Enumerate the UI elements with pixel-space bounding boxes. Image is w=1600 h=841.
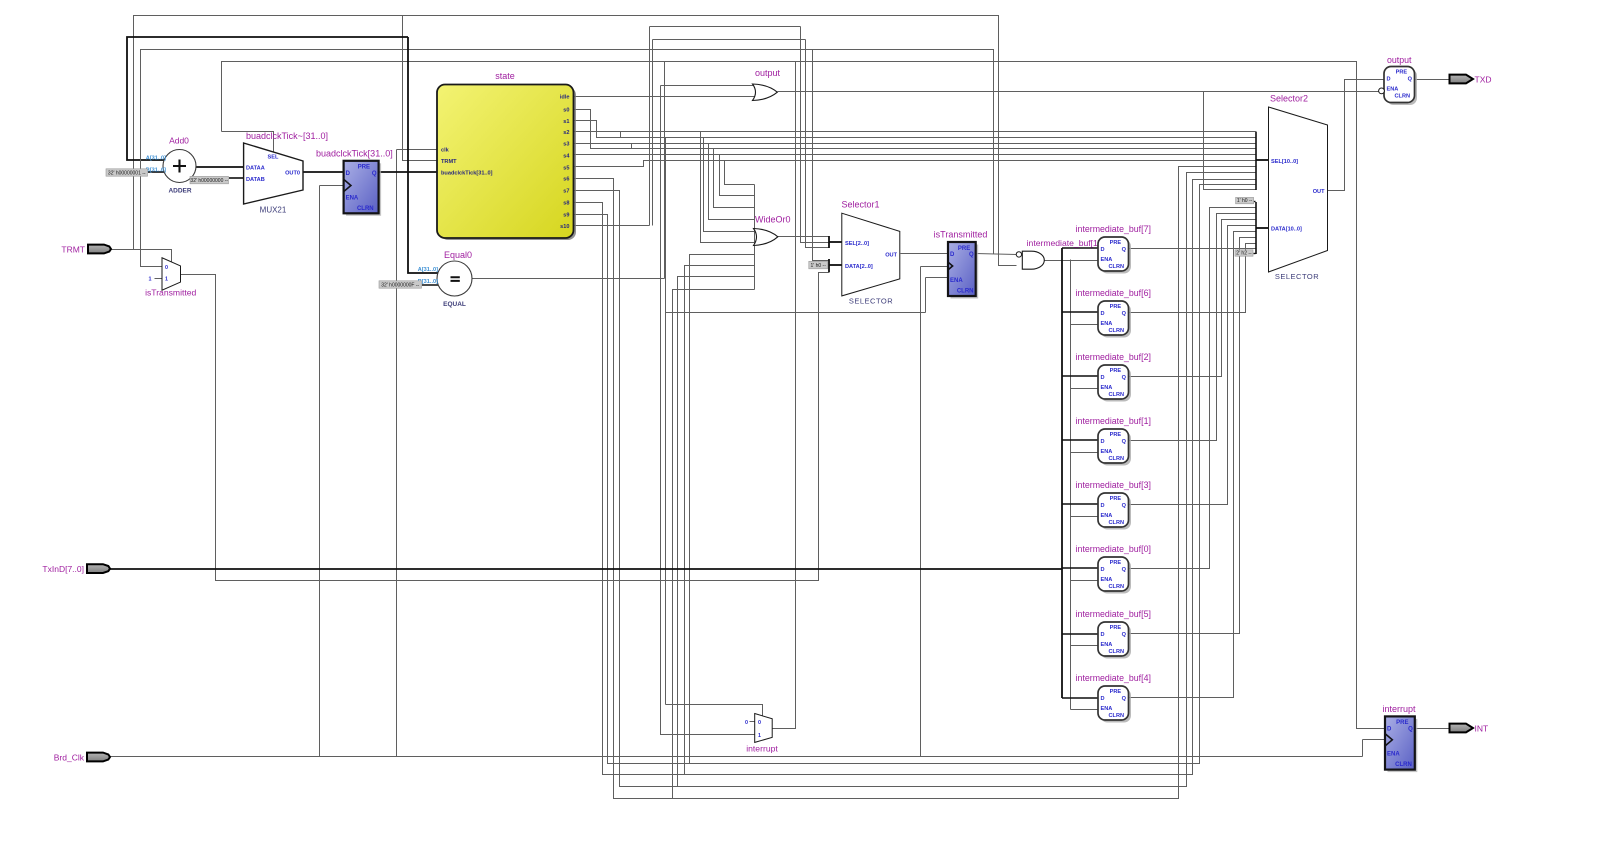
wire clock riser state xyxy=(396,150,398,757)
svg-text:Q: Q xyxy=(969,252,974,258)
flip-flop intermediate_buf[3] xyxy=(1076,480,1151,530)
wire s0 branch to WideOr0 xyxy=(714,149,755,208)
svg-text:DATAB: DATAB xyxy=(246,177,265,183)
svg-text:MUX21: MUX21 xyxy=(260,206,287,215)
input pin TxInD[7..0] xyxy=(42,564,110,574)
wire intermediate_buf[7] Q to Selector2 DATA xyxy=(1129,248,1256,250)
wire MUX21 OUT0 to DFF D xyxy=(303,171,344,173)
wire const 0 stub xyxy=(750,721,755,723)
wire ENA stub intermediate_buf 3 xyxy=(1071,452,1099,454)
wire s3 branch to WideOr0 xyxy=(709,144,755,220)
svg-text:D: D xyxy=(1387,76,1391,82)
svg-text:ENA: ENA xyxy=(1101,385,1113,391)
svg-text:OUT: OUT xyxy=(1313,189,1325,195)
svg-text:D: D xyxy=(1101,439,1105,445)
state machine state xyxy=(437,71,576,240)
wire const 2h2 stub xyxy=(1254,253,1256,255)
wire intermediate_buf[3] Q to Selector2 DATA xyxy=(1129,226,1256,505)
wire branch to Selector2 SEL xyxy=(1204,92,1257,190)
wire intermediate_buf[0] Q to Selector2 DATA xyxy=(1129,208,1256,569)
wire s10 to riser xyxy=(574,225,650,227)
flip-flop buadclckTick[31..0] xyxy=(316,148,393,216)
wire D stub intermediate_buf 0 xyxy=(1062,247,1098,249)
comparator Equal0 xyxy=(418,250,472,308)
svg-text:ENA: ENA xyxy=(1101,642,1113,648)
wire s7 long detour to Selector2 SEL xyxy=(574,173,1257,787)
svg-text:CLRN: CLRN xyxy=(1109,392,1125,398)
svg-text:32' h00000000 --: 32' h00000000 -- xyxy=(190,178,228,184)
wire D stub intermediate_buf 3 xyxy=(1062,439,1098,441)
svg-text:D: D xyxy=(1101,311,1105,317)
svg-text:CLRN: CLRN xyxy=(1109,456,1125,462)
wire Add0 sum to MUX21 DATAA xyxy=(196,166,244,168)
svg-text:SEL: SEL xyxy=(268,155,279,161)
svg-text:buadclckTick[31..0]: buadclckTick[31..0] xyxy=(441,171,493,177)
svg-text:1: 1 xyxy=(758,733,761,739)
svg-text:s5: s5 xyxy=(563,165,569,171)
wire intermediate_buf[6] Q to Selector2 DATA xyxy=(1129,244,1256,313)
wire clock riser isTransmitted xyxy=(920,267,922,757)
svg-text:PRE: PRE xyxy=(1110,689,1122,695)
svg-text:Q: Q xyxy=(372,171,377,177)
wire s5 to Selector2 SEL xyxy=(574,161,1257,167)
svg-text:PRE: PRE xyxy=(358,165,370,171)
wire WideOr0 input bar xyxy=(754,185,756,290)
svg-text:s10: s10 xyxy=(560,224,569,230)
constant 1h0 selector2 xyxy=(1236,197,1254,204)
svg-text:EQUAL: EQUAL xyxy=(443,301,466,308)
svg-text:s8: s8 xyxy=(563,200,569,206)
svg-text:B[31..0]: B[31..0] xyxy=(146,168,166,174)
wire intermediate_buf[2] Q to Selector2 DATA xyxy=(1129,220,1256,377)
svg-text:Q: Q xyxy=(1122,696,1127,702)
wire D stub intermediate_buf 6 xyxy=(1062,633,1098,635)
svg-text:0: 0 xyxy=(758,720,761,726)
wire output Q to TXD xyxy=(1415,79,1450,81)
wire isTransmitted mux output to Selector1 DATA xyxy=(181,273,830,581)
svg-text:CLRN: CLRN xyxy=(1395,94,1411,100)
svg-text:D: D xyxy=(346,171,351,177)
wire s7 branch to WideOr0 xyxy=(678,277,755,787)
svg-text:Q: Q xyxy=(1122,439,1127,445)
svg-text:PRE: PRE xyxy=(1396,720,1408,726)
svg-text:TRMT: TRMT xyxy=(61,245,85,255)
svg-text:CLRN: CLRN xyxy=(1109,649,1125,655)
svg-text:buadclckTick~[31..0]: buadclckTick~[31..0] xyxy=(246,131,328,141)
wire s2 branch to WideOr0 xyxy=(701,132,755,243)
wire clk stub state xyxy=(397,149,438,151)
svg-text:ENA: ENA xyxy=(1101,321,1113,327)
wire Selector2 DATA bar xyxy=(1255,202,1257,254)
svg-text:intermediate_buf[2]: intermediate_buf[2] xyxy=(1076,352,1151,362)
svg-text:DATA[10..0]: DATA[10..0] xyxy=(1271,227,1302,233)
flip-flop intermediate_buf[1] xyxy=(1076,416,1151,466)
svg-text:Q: Q xyxy=(1122,375,1127,381)
svg-text:SEL[10..0]: SEL[10..0] xyxy=(1271,159,1298,165)
wire D stub intermediate_buf 7 xyxy=(1062,697,1098,699)
wire ENA stub intermediate_buf 6 xyxy=(1071,645,1099,647)
wire Selector2 SEL bar xyxy=(1255,132,1257,190)
wire bridge to Selector1 xyxy=(653,39,806,41)
svg-text:interrupt: interrupt xyxy=(746,744,778,754)
wire jog xyxy=(631,144,633,149)
svg-text:Q: Q xyxy=(1408,76,1413,82)
wire buadclckTick Q bus xyxy=(378,171,437,173)
wire enable net horizontal xyxy=(666,312,926,314)
wire interrupt Q to INT xyxy=(1416,728,1450,730)
svg-text:Selector1: Selector1 xyxy=(841,200,879,210)
svg-text:PRE: PRE xyxy=(1110,496,1122,502)
wire const 1h0 stub xyxy=(1254,201,1256,203)
wire s1 to Selector2 SEL xyxy=(574,121,1257,138)
flip-flop intermediate_buf[0] xyxy=(1076,544,1151,594)
wire output OR upper input xyxy=(661,85,759,87)
svg-text:s1: s1 xyxy=(563,119,569,125)
wire ENA stub intermediate_buf 5 xyxy=(1071,580,1099,582)
svg-text:INT: INT xyxy=(1475,723,1489,733)
svg-text:idle: idle xyxy=(560,94,570,100)
wire isTransmitted Q to AND xyxy=(976,254,1017,255)
wire ENA stub intermediate_buf 2 xyxy=(1071,388,1099,390)
svg-text:s2: s2 xyxy=(563,130,569,136)
svg-text:CLRN: CLRN xyxy=(1109,264,1125,270)
svg-text:PRE: PRE xyxy=(1396,70,1408,76)
svg-text:Brd_Clk: Brd_Clk xyxy=(54,753,85,763)
wire Selector1 DATA bar xyxy=(828,259,830,272)
svg-text:isTransmitted: isTransmitted xyxy=(934,230,988,240)
svg-text:Q: Q xyxy=(1122,503,1127,509)
wire s9 branch to WideOr0 xyxy=(690,255,755,764)
wire AND output xyxy=(1045,260,1071,262)
svg-text:1' h0 --: 1' h0 -- xyxy=(810,263,826,269)
svg-text:intermediate_buf[4]: intermediate_buf[4] xyxy=(1076,673,1151,683)
svg-text:SELECTOR: SELECTOR xyxy=(1275,272,1319,281)
wire s10 riser xyxy=(649,27,651,226)
svg-text:PRE: PRE xyxy=(958,246,970,252)
input pin TRMT xyxy=(61,245,111,255)
wire Selector2 DATA stub xyxy=(1256,227,1268,229)
svg-text:TXD: TXD xyxy=(1475,74,1492,84)
output pin INT xyxy=(1450,723,1489,733)
wire Selector1 OUT to isTransmitted D xyxy=(901,253,949,255)
wire riser x652 xyxy=(652,40,654,226)
svg-text:PRE: PRE xyxy=(1110,432,1122,438)
svg-text:D: D xyxy=(1101,696,1105,702)
svg-text:PRE: PRE xyxy=(1110,625,1122,631)
wire s1 branch to WideOr0 xyxy=(704,138,755,232)
svg-text:intermediate_buf[7]: intermediate_buf[7] xyxy=(1076,224,1151,234)
wire WideOr0 output to Selector1 SEL xyxy=(778,236,830,238)
and-gate intermediate_buf[1]~0 xyxy=(1016,238,1110,269)
svg-text:1: 1 xyxy=(165,277,168,283)
wire interrupt D long net xyxy=(222,62,1386,729)
flip-flop intermediate_buf[4] xyxy=(1076,673,1151,723)
svg-text:ENA: ENA xyxy=(1101,513,1113,519)
wire const to MUX21 DATAB xyxy=(229,177,244,179)
svg-text:ENA: ENA xyxy=(1101,449,1113,455)
svg-text:output: output xyxy=(755,68,781,78)
svg-text:ENA: ENA xyxy=(950,278,963,284)
wire const 1 stub xyxy=(155,278,163,280)
wire to interrupt mux select xyxy=(666,705,763,717)
wire TRMT top distribution to AND input xyxy=(134,16,1017,266)
svg-text:OUT: OUT xyxy=(885,252,897,258)
wire clock riser buadclckTick xyxy=(319,186,321,757)
wire ENA stub isTransmitted xyxy=(926,277,949,279)
svg-text:PRE: PRE xyxy=(1110,240,1122,246)
wire drop to Selector1 SEL b xyxy=(806,40,830,248)
wire ENA stub intermediate_buf 7 xyxy=(1071,709,1099,711)
constant 32h0000000F xyxy=(379,281,422,289)
svg-text:PRE: PRE xyxy=(1110,368,1122,374)
wire Equal0 output xyxy=(473,278,665,280)
wire s9 long detour to Selector2 SEL xyxy=(574,185,1257,764)
svg-text:PRE: PRE xyxy=(1110,304,1122,310)
svg-text:D: D xyxy=(1101,375,1105,381)
wire enable net riser xyxy=(925,278,927,313)
wire s3 to Selector2 SEL xyxy=(574,143,1257,145)
wire D stub intermediate_buf 2 xyxy=(1062,375,1098,377)
svg-text:1: 1 xyxy=(149,277,152,283)
svg-text:D: D xyxy=(950,252,955,258)
wire TRMT to isTransmitted mux select xyxy=(112,250,172,262)
wire Selector1 SEL stub xyxy=(829,241,842,243)
svg-text:D: D xyxy=(1101,503,1105,509)
mux Selector2 xyxy=(1269,94,1328,282)
svg-text:intermediate_buf[1]: intermediate_buf[1] xyxy=(1076,416,1151,426)
svg-text:SEL[2..0]: SEL[2..0] xyxy=(845,241,869,247)
svg-text:Equal0: Equal0 xyxy=(444,250,472,260)
svg-text:s7: s7 xyxy=(563,188,569,194)
svg-text:s6: s6 xyxy=(563,176,569,182)
wire ENA stub intermediate_buf 1 xyxy=(1071,324,1099,326)
constant 32h00000000 xyxy=(190,176,229,184)
svg-text:A[31..0]: A[31..0] xyxy=(146,156,166,162)
wire s4 to Selector2 SEL xyxy=(574,154,1257,156)
wire clk stub isTransmitted xyxy=(921,266,949,268)
wire Selector2 OUT to output DFF D xyxy=(1328,80,1385,191)
wire idle to output OR xyxy=(574,96,759,98)
svg-text:ENA: ENA xyxy=(1387,87,1399,93)
svg-text:DATAA: DATAA xyxy=(246,165,265,171)
wire clk stub xyxy=(320,185,344,187)
svg-text:s3: s3 xyxy=(563,142,569,148)
svg-text:2' h2 --: 2' h2 -- xyxy=(1236,250,1252,256)
wire drop to Selector1 SEL xyxy=(801,27,830,243)
wire interrupt mux output riser xyxy=(773,62,796,729)
wire MUX21 SEL loop xyxy=(222,132,274,153)
svg-text:ENA: ENA xyxy=(1101,577,1113,583)
mux isTransmitted xyxy=(145,258,196,298)
wire TRMT branch to state.TRMT xyxy=(403,16,438,161)
constant 32h00000001 xyxy=(106,169,148,177)
svg-text:intermediate_buf[3]: intermediate_buf[3] xyxy=(1076,480,1151,490)
wire enable trunk for intermediate_buf xyxy=(1070,260,1072,710)
flip-flop output xyxy=(1384,55,1417,105)
wire s4 branch to WideOr0 xyxy=(720,155,755,196)
wire output OR input riser to interrupt mux port1 xyxy=(661,86,755,735)
flip-flop intermediate_buf[2] xyxy=(1076,352,1151,402)
wire Selector1 DATA stub xyxy=(829,264,842,266)
svg-text:clk: clk xyxy=(441,147,450,153)
wire const to Add0 B xyxy=(148,171,164,173)
svg-text:state: state xyxy=(495,71,515,81)
wire Add0.A feedback bus xyxy=(127,37,408,160)
svg-text:Q: Q xyxy=(1122,247,1127,253)
wire s1 branch riser xyxy=(665,138,667,705)
svg-text:intermediate_buf[6]: intermediate_buf[6] xyxy=(1076,288,1151,298)
wire intermediate_buf[5] Q to Selector2 DATA xyxy=(1129,238,1256,634)
svg-text:ADDER: ADDER xyxy=(168,188,191,195)
flip-flop interrupt xyxy=(1382,704,1417,772)
svg-text:D: D xyxy=(1101,567,1105,573)
wire Selector2 SEL stub xyxy=(1256,159,1268,161)
wire branch to Selector1 DATA xyxy=(813,50,830,261)
wire D stub intermediate_buf 1 xyxy=(1062,311,1098,313)
svg-text:CLRN: CLRN xyxy=(957,289,974,295)
svg-text:Q: Q xyxy=(1408,726,1413,732)
svg-text:ENA: ENA xyxy=(1387,752,1400,758)
wire D stub intermediate_buf 4 xyxy=(1062,503,1098,505)
svg-text:output: output xyxy=(1387,55,1412,65)
svg-text:32' h0000000F --: 32' h0000000F -- xyxy=(381,282,419,288)
svg-text:s0: s0 xyxy=(563,107,569,113)
wire Selector1 SEL bar xyxy=(828,236,830,248)
flip-flop intermediate_buf[5] xyxy=(1076,609,1151,659)
svg-text:0: 0 xyxy=(745,720,748,726)
constant 2h2 xyxy=(1235,250,1253,257)
wire ENA stub intermediate_buf 0 xyxy=(1071,260,1099,262)
flip-flop isTransmitted xyxy=(934,230,988,299)
svg-text:Q: Q xyxy=(1122,632,1127,638)
svg-text:CLRN: CLRN xyxy=(357,206,374,212)
wire intermediate_buf[1] Q to Selector2 DATA xyxy=(1129,214,1256,441)
svg-text:DATA[2..0]: DATA[2..0] xyxy=(845,264,873,270)
svg-text:ENA: ENA xyxy=(1101,257,1113,263)
svg-text:0: 0 xyxy=(165,265,168,271)
wire s0 to Selector2 SEL xyxy=(574,110,1257,149)
or-gate WideOr0 xyxy=(754,215,791,246)
wire isTransmitted Q feedback to mux port0 xyxy=(141,50,994,267)
svg-text:s4: s4 xyxy=(563,153,570,159)
svg-text:ENA: ENA xyxy=(1101,706,1113,712)
svg-text:PRE: PRE xyxy=(1110,560,1122,566)
wire clk stub interrupt xyxy=(1363,739,1386,741)
svg-text:OUT0: OUT0 xyxy=(285,171,300,177)
wire s6 long detour to Selector2 SEL xyxy=(574,167,1257,799)
wire TxInD bus xyxy=(110,568,1062,570)
svg-text:SELECTOR: SELECTOR xyxy=(849,297,893,306)
svg-text:CLRN: CLRN xyxy=(1395,762,1412,768)
wire Equal0 output riser xyxy=(664,62,666,279)
svg-text:CLRN: CLRN xyxy=(1109,713,1125,719)
svg-text:s9: s9 xyxy=(563,212,569,218)
wire s6 branch to WideOr0 xyxy=(673,290,755,799)
svg-text:1' h0 --: 1' h0 -- xyxy=(1237,198,1253,204)
svg-text:Add0: Add0 xyxy=(169,136,189,146)
wire ENA stub intermediate_buf 4 xyxy=(1071,516,1099,518)
svg-text:TxInD[7..0]: TxInD[7..0] xyxy=(42,564,84,574)
svg-text:intermediate_buf[5]: intermediate_buf[5] xyxy=(1076,609,1151,619)
wire const to Equal0 B xyxy=(422,284,442,286)
output pin TXD xyxy=(1450,74,1492,84)
svg-text:intermediate_buf[0]: intermediate_buf[0] xyxy=(1076,544,1151,554)
svg-text:32' h00000001 --: 32' h00000001 -- xyxy=(108,170,146,176)
svg-text:buadclckTick[31..0]: buadclckTick[31..0] xyxy=(316,148,393,158)
svg-text:CLRN: CLRN xyxy=(1109,328,1125,334)
wire jog xyxy=(620,132,622,138)
svg-text:CLRN: CLRN xyxy=(1109,520,1125,526)
wire D stub intermediate_buf 5 xyxy=(1062,567,1098,569)
inverter bubble output ENA xyxy=(1379,88,1385,94)
flip-flop intermediate_buf[6] xyxy=(1076,288,1151,338)
constant 1h0 xyxy=(809,261,828,269)
wire bridge s10 to Selector1 xyxy=(650,26,801,28)
svg-text:D: D xyxy=(1101,632,1105,638)
wire intermediate_buf[4] Q to Selector2 DATA xyxy=(1129,232,1256,698)
mux interrupt xyxy=(745,714,778,754)
adder Add0 xyxy=(146,136,196,195)
svg-text:Selector2: Selector2 xyxy=(1270,94,1308,104)
svg-text:CLRN: CLRN xyxy=(1109,584,1125,590)
svg-text:D: D xyxy=(1101,247,1105,253)
wire output OR to output DFF ENA xyxy=(778,91,1379,93)
svg-text:A[31..0]: A[31..0] xyxy=(418,267,438,273)
wire TxInD bus trunk xyxy=(1061,248,1063,698)
input pin Brd_Clk xyxy=(54,753,110,763)
svg-text:WideOr0: WideOr0 xyxy=(755,215,791,225)
svg-text:ENA: ENA xyxy=(346,195,359,201)
wire s2 to Selector2 SEL xyxy=(574,131,1257,133)
mux Selector1 xyxy=(841,200,899,306)
svg-text:TRMT: TRMT xyxy=(441,159,457,165)
svg-text:Q: Q xyxy=(1122,567,1127,573)
svg-text:interrupt: interrupt xyxy=(1382,704,1416,714)
wire Brd_Clk net xyxy=(111,756,1363,758)
mux MUX21 buadclckTick~[31..0] xyxy=(244,131,328,215)
wire s8 branch to WideOr0 xyxy=(685,266,755,775)
svg-text:isTransmitted: isTransmitted xyxy=(145,288,196,298)
flip-flop intermediate_buf[7] xyxy=(1076,224,1151,274)
or-gate output xyxy=(753,68,781,101)
wire s5 branch to WideOr0 xyxy=(725,161,755,185)
wire Q bus to Equal0 A xyxy=(408,37,438,273)
svg-text:Q: Q xyxy=(1122,311,1127,317)
wire clock riser interrupt xyxy=(1362,740,1364,757)
wire s8 long detour to Selector2 SEL xyxy=(574,180,1257,775)
svg-text:D: D xyxy=(1387,726,1392,732)
